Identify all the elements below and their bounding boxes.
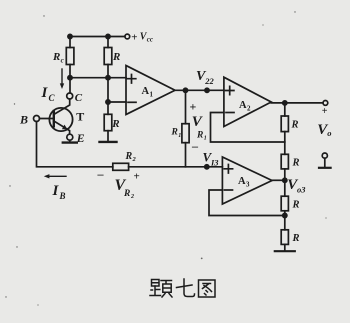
junction node V22 — [205, 88, 209, 92]
label Vo — [317, 122, 331, 138]
label Rc — [52, 51, 64, 64]
resistor R2 — [113, 163, 129, 170]
junction node VI3 — [205, 165, 209, 169]
resistor R chain 4 — [281, 230, 288, 245]
wire base — [40, 118, 54, 120]
terminal Vo — [323, 101, 328, 106]
wire A2 feedback — [211, 113, 285, 143]
resistor R lower divider — [104, 114, 112, 130]
label Ic — [41, 85, 56, 103]
resistor Rc — [69, 37, 71, 48]
wire A1 plus input row — [70, 77, 126, 79]
label A3 — [238, 176, 250, 189]
arrow Ic — [61, 69, 63, 86]
svg-text:R: R — [52, 51, 60, 63]
node E — [67, 134, 73, 140]
wire Rc to node C — [69, 65, 71, 94]
svg-text:2: 2 — [130, 194, 134, 200]
svg-text:I: I — [41, 85, 49, 101]
svg-text:1: 1 — [204, 136, 207, 142]
svg-text:–: – — [97, 167, 105, 181]
wire A2 output — [271, 102, 323, 104]
svg-text:3: 3 — [246, 181, 250, 189]
resistor R top — [107, 37, 109, 48]
node Vo3 — [283, 178, 287, 182]
svg-text:A: A — [142, 86, 150, 97]
glyph tu — [199, 280, 216, 297]
wire B down to bottom row — [37, 122, 113, 167]
label A1 — [142, 86, 154, 99]
svg-text:22: 22 — [204, 76, 214, 86]
svg-text:V: V — [192, 114, 204, 130]
ground emitter — [69, 140, 71, 141]
label V22 — [196, 69, 215, 86]
svg-text:2: 2 — [132, 156, 137, 163]
svg-text:R: R — [292, 200, 300, 211]
op-amp A2 — [224, 77, 271, 126]
wire A1 output to A2 — [175, 89, 224, 91]
resistor R feedback A2 — [284, 103, 286, 116]
svg-text:c: c — [61, 56, 64, 64]
junction R wire / plus row — [106, 76, 110, 80]
resistor R1 — [185, 90, 187, 123]
svg-text:–: – — [191, 139, 199, 153]
ground chain — [275, 250, 295, 252]
resistor R chain 3 — [281, 196, 288, 211]
svg-text:T: T — [76, 110, 84, 124]
op-amp A1 — [126, 66, 175, 115]
svg-text:1: 1 — [178, 133, 181, 139]
svg-text:+: + — [322, 106, 328, 117]
label VR1 — [192, 114, 207, 141]
svg-text:o3: o3 — [297, 184, 306, 194]
svg-text:I3: I3 — [210, 158, 219, 168]
svg-text:I: I — [52, 183, 60, 199]
svg-text:A: A — [239, 100, 247, 111]
svg-text:+: + — [190, 100, 197, 114]
node B — [34, 116, 40, 122]
svg-text:C: C — [75, 92, 83, 104]
svg-text:R: R — [171, 128, 178, 138]
svg-text:R: R — [112, 51, 120, 63]
caption 题七图 — [150, 279, 215, 297]
wire A3 output — [272, 179, 285, 181]
svg-text:+: + — [134, 171, 140, 183]
junction A3 feedback — [283, 213, 287, 217]
svg-text:R: R — [292, 233, 300, 244]
junction R1 top — [183, 88, 187, 92]
wire Vcc rail — [70, 36, 125, 38]
label VI3 — [203, 150, 220, 168]
svg-text:C: C — [49, 93, 56, 103]
node C — [67, 93, 73, 99]
svg-text:R: R — [111, 118, 119, 130]
transistor T — [49, 108, 72, 131]
glyph ti — [150, 280, 172, 298]
svg-text:1: 1 — [150, 90, 154, 98]
wire A3 feedback — [209, 190, 285, 216]
terminal ground right — [322, 153, 327, 158]
svg-text:cc: cc — [147, 37, 153, 44]
svg-text:R: R — [291, 120, 299, 131]
svg-text:R: R — [125, 151, 133, 162]
ground divider — [100, 141, 117, 143]
resistor R chain 2 — [281, 154, 288, 169]
svg-text:o: o — [327, 128, 331, 138]
wire R divider vertical — [107, 65, 109, 115]
junction divider / minus stub — [106, 100, 110, 104]
op-amp A3 — [222, 157, 272, 204]
wire A1 minus input stub — [108, 101, 126, 103]
arrow IB — [48, 175, 67, 177]
junction Vcc/Rc — [68, 34, 72, 38]
terminal +Vcc — [125, 34, 130, 39]
junction Rc wire / plus row — [68, 76, 72, 80]
svg-text:+: + — [131, 31, 137, 43]
svg-text:B: B — [19, 113, 28, 127]
svg-text:2: 2 — [247, 104, 251, 112]
wire bottom row to A3 — [129, 166, 223, 168]
junction Vcc/R — [106, 34, 110, 38]
label A2 — [239, 100, 251, 113]
label VR2 — [115, 177, 135, 200]
label IB — [52, 183, 66, 201]
label Vo3 — [287, 177, 306, 195]
svg-text:A: A — [238, 176, 246, 187]
label R2 — [125, 151, 137, 163]
glyph qi — [177, 279, 195, 297]
svg-text:R: R — [292, 158, 300, 169]
label +Vcc — [131, 31, 153, 43]
svg-text:B: B — [59, 191, 66, 201]
svg-text:R: R — [123, 189, 130, 199]
label R1 — [171, 128, 182, 139]
junction A2 output — [283, 101, 287, 105]
